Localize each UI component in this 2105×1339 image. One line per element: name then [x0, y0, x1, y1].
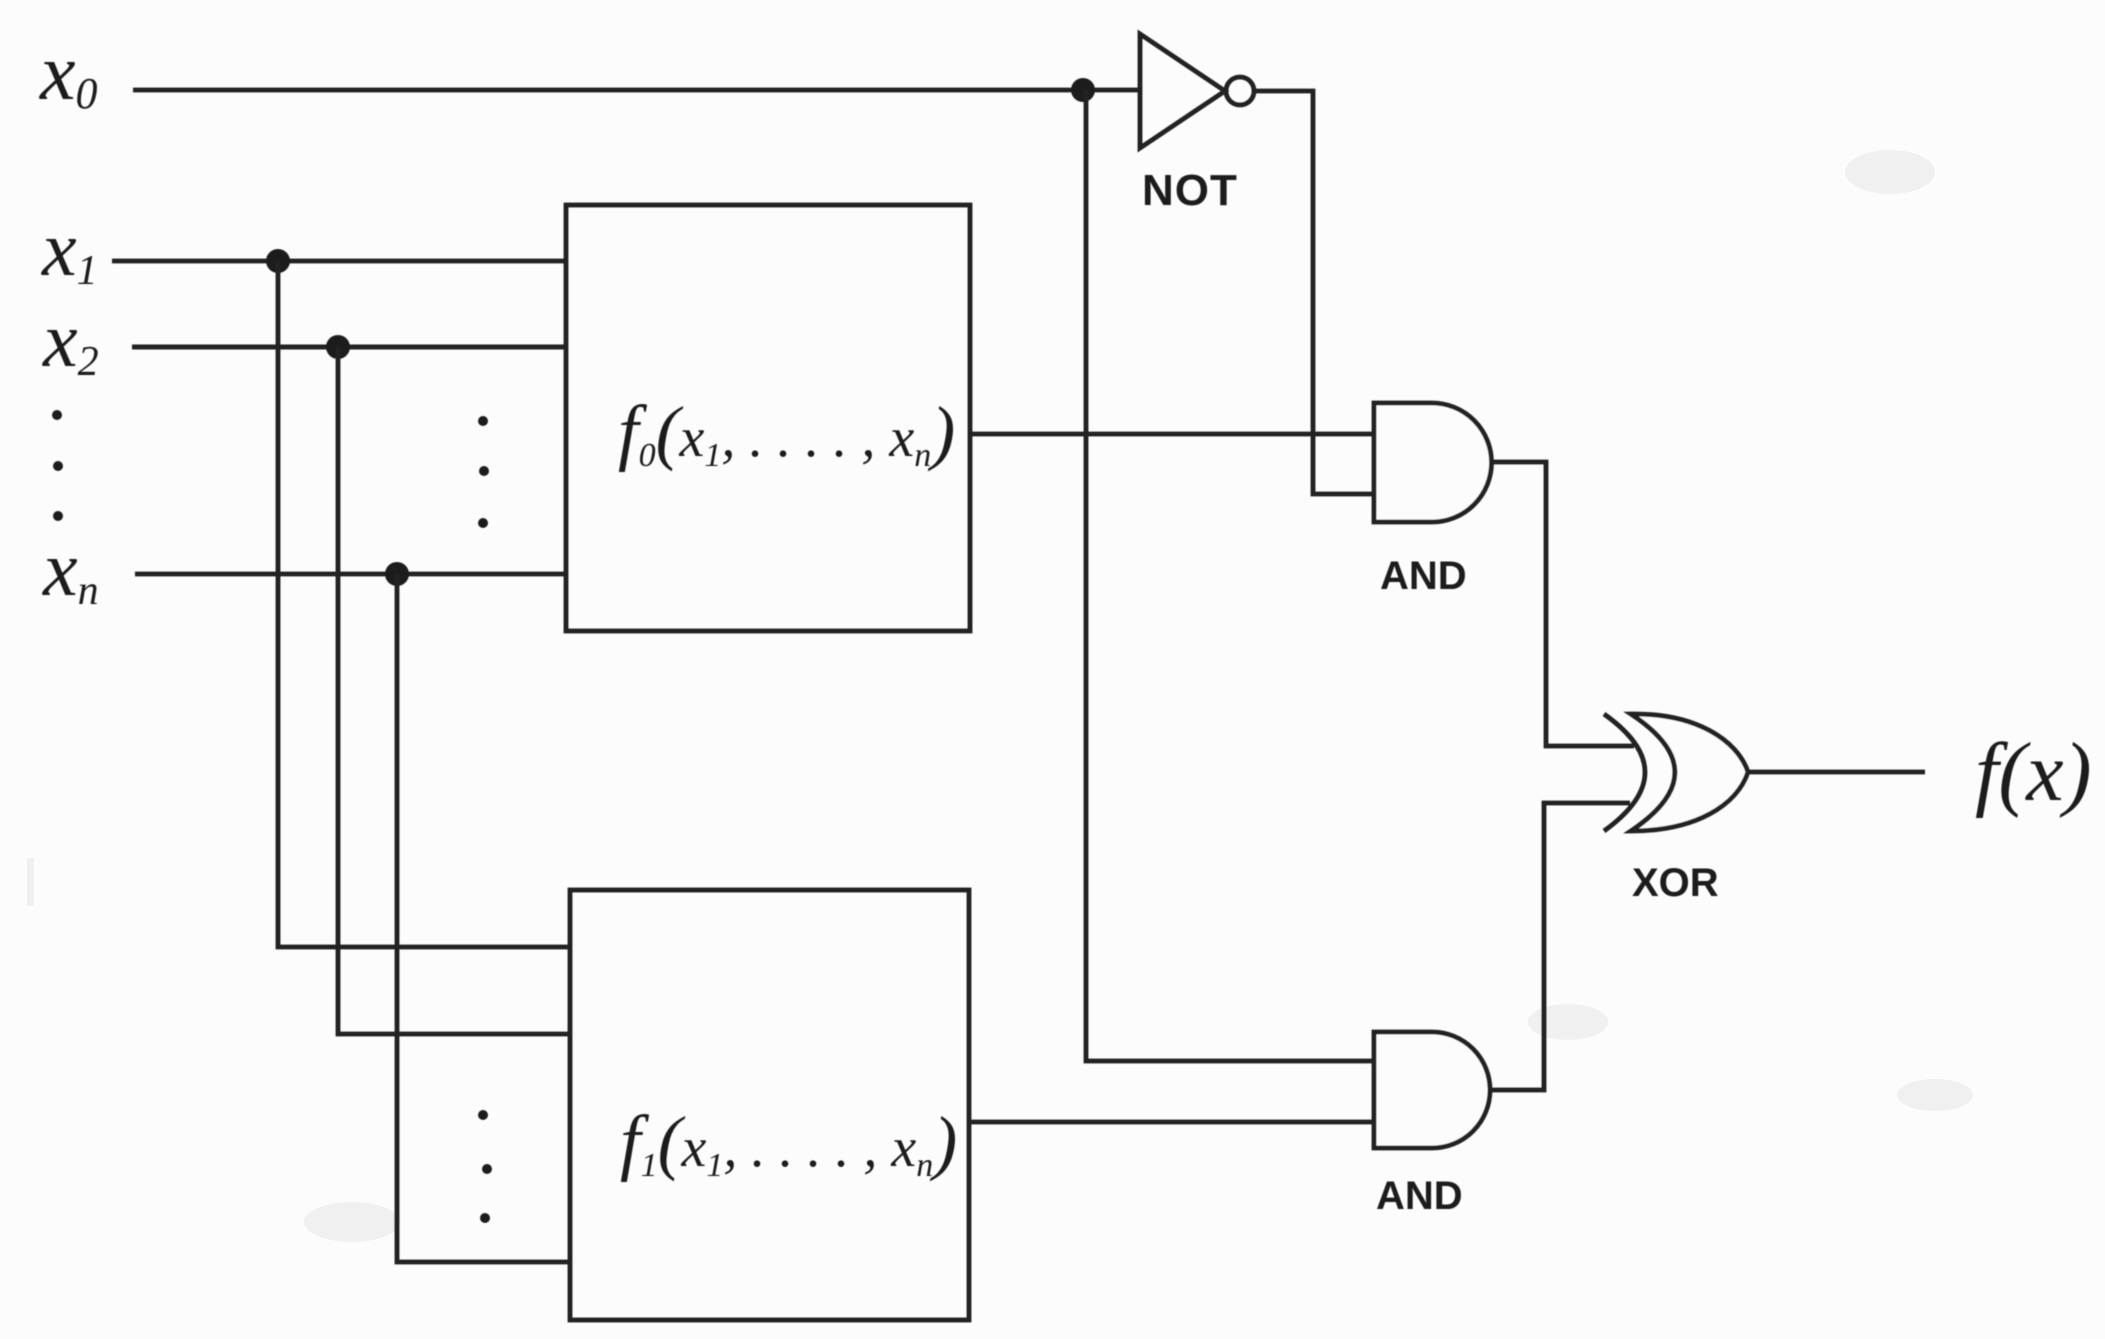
input label x0 — [39, 29, 98, 118]
wire xn horizontal — [135, 572, 566, 577]
wire x1 branch down to f1 — [278, 261, 570, 947]
label NOT — [1142, 166, 1238, 215]
input label x2 — [42, 296, 99, 385]
input label xn — [42, 525, 99, 614]
ellipsis dots before f0 — [478, 416, 489, 528]
label f0(x1,...,xn) — [618, 391, 955, 474]
label f1(x1,...,xn) — [620, 1101, 957, 1184]
wire XOR output — [1748, 770, 1925, 775]
XOR gate U4 back arc — [1604, 714, 1645, 831]
wire NOT output to AND1 lower input — [1254, 91, 1374, 494]
box f0 — [566, 205, 970, 631]
XOR gate U4 body — [1631, 714, 1748, 831]
NOT gate U1 triangle — [1140, 34, 1225, 148]
wire x0 branch down to AND2 upper input — [1086, 90, 1374, 1061]
node xn junction — [385, 562, 409, 586]
wire x2 horizontal — [132, 345, 566, 350]
input label x1 — [41, 205, 98, 294]
NOT bubble — [1226, 77, 1254, 105]
svg-text:NOT: NOT — [1142, 166, 1238, 215]
label AND (bottom) — [1376, 1174, 1463, 1218]
node x2 junction — [326, 335, 350, 359]
svg-text:AND: AND — [1380, 554, 1467, 598]
AND gate U2 (top) — [1374, 403, 1492, 522]
svg-text:f(x): f(x) — [1975, 726, 2092, 819]
svg-text:XOR: XOR — [1632, 861, 1719, 905]
ellipsis dots left margin — [52, 410, 63, 521]
wire x1 horizontal — [112, 259, 566, 264]
faint photocopy smudges (decorative) — [27, 150, 1973, 1242]
node x0 junction — [1071, 78, 1095, 102]
wire x0 horizontal — [133, 88, 1140, 93]
node x1 junction — [266, 249, 290, 273]
AND gate U3 (bottom) — [1374, 1032, 1490, 1148]
wire f0 output to AND1 upper input — [970, 432, 1374, 437]
wire x2 branch down to f1 — [338, 347, 570, 1034]
ellipsis dots before f1 — [478, 1110, 492, 1223]
label XOR — [1632, 861, 1719, 905]
box f1 — [570, 890, 969, 1320]
label AND (top) — [1380, 554, 1467, 598]
wire AND2 output to XOR lower input — [1490, 803, 1630, 1090]
wire AND1 output to XOR upper input — [1491, 462, 1634, 746]
svg-text:AND: AND — [1376, 1174, 1463, 1218]
wire f1 output to AND2 lower input — [969, 1120, 1374, 1125]
wire xn branch down to f1 — [397, 574, 570, 1262]
output label f(x) — [1975, 726, 2092, 819]
